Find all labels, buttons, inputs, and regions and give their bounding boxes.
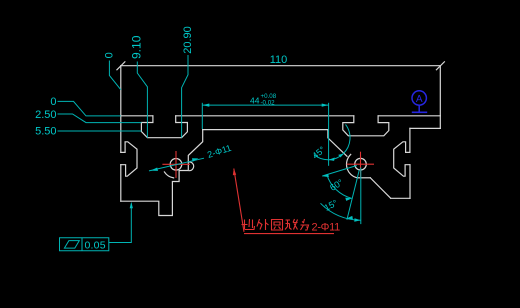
leader line 2-phi11 — [149, 158, 204, 171]
ledge left segment — [121, 115, 153, 117]
left side hook groove — [121, 142, 137, 176]
dim tick right corner — [436, 62, 444, 70]
right edge lower — [409, 165, 411, 199]
right edge mid — [409, 128, 411, 152]
svg-text:A: A — [416, 94, 423, 105]
15 arc arrow at vertical — [354, 218, 360, 222]
datum stem — [418, 105, 420, 112]
left hole crosshair vertical — [175, 151, 177, 178]
cyan dimensions — [58, 55, 361, 251]
45 arc arrow at chamfer — [338, 154, 344, 158]
44 dim arrow right — [322, 104, 329, 107]
leader arrow on 2-phi11 line lower — [151, 168, 159, 171]
fake CJK strokes: 外 — [257, 219, 269, 230]
fake CJK strokes: 圆 — [272, 220, 283, 231]
60 deg ray 1 — [322, 166, 357, 177]
datum circle — [412, 91, 426, 105]
parallelism symbol — [64, 241, 79, 249]
right T-slot — [343, 116, 389, 136]
44 dimension line — [202, 104, 328, 106]
right hole crosshair horizontal — [347, 163, 374, 165]
datum base bar — [412, 111, 427, 113]
channel ceiling — [203, 129, 328, 131]
leader arrow on 2-phi11 line upper — [192, 158, 199, 162]
fake CJK strokes: 此 — [242, 219, 309, 230]
right block bottom — [391, 197, 410, 199]
right edge upper — [439, 66, 441, 129]
44 extension line left — [201, 103, 203, 129]
svg-text:5.50: 5.50 — [35, 126, 56, 138]
channel left wall, 45 chamfer and left block steps — [121, 130, 203, 216]
right hole outer arc — [347, 154, 358, 177]
frame leader — [109, 204, 132, 243]
red underline — [244, 233, 334, 235]
red leader line — [234, 169, 244, 232]
cyan texts — [35, 26, 345, 251]
right hole circle — [355, 158, 367, 170]
datum A symbol (blue) — [412, 91, 427, 113]
left hole circle — [170, 159, 182, 171]
svg-text:2-Φ11: 2-Φ11 — [312, 222, 341, 234]
top edge / 110 dimension line — [121, 65, 441, 67]
ledge middle segment — [176, 115, 354, 117]
60 arc arrow lower — [345, 198, 352, 201]
frame leader arrow — [130, 202, 133, 209]
svg-text:44: 44 — [250, 96, 260, 106]
left hole outer arc bottom-left — [164, 172, 173, 178]
leader for 2.50 label — [58, 114, 142, 123]
15 deg dimension arc — [321, 203, 361, 220]
left T-slot — [141, 116, 187, 138]
left edge upper — [120, 66, 122, 153]
floor right of right hole — [357, 177, 370, 179]
45 deg dimension arc — [314, 124, 350, 159]
cyan arrowheads — [130, 104, 361, 222]
45 deg surface right block — [370, 178, 390, 199]
svg-text:0: 0 — [50, 96, 56, 108]
svg-text:110: 110 — [270, 54, 288, 66]
svg-text:9.10: 9.10 — [129, 35, 143, 59]
15 arc arrow at ray2 — [346, 216, 353, 219]
channel right wall and 45 chamfer — [328, 130, 347, 157]
60 deg ray 2 — [347, 170, 359, 220]
svg-text:0: 0 — [104, 52, 116, 58]
red center marks and revision note — [162, 151, 374, 234]
vertical ray below right hole — [360, 168, 362, 225]
leader for 9.10 label — [137, 62, 147, 138]
right hole crosshair vertical — [360, 152, 362, 177]
44 dim arrow left — [203, 104, 210, 107]
left hole crosshair horizontal — [162, 163, 190, 165]
leader for left 0 label — [58, 101, 121, 116]
svg-text:20.90: 20.90 — [182, 26, 194, 54]
feature control frame box — [60, 238, 109, 251]
right side hook groove — [394, 142, 410, 176]
dim tick left corner — [117, 62, 125, 70]
right step at y=128.4 — [410, 127, 440, 129]
svg-text:-0.02: -0.02 — [261, 99, 276, 106]
part outline (white) — [117, 62, 445, 216]
fake CJK strokes: 为 — [301, 219, 309, 230]
svg-text:0.05: 0.05 — [85, 239, 106, 251]
left hole outer arc right bulge — [189, 162, 193, 171]
leader for top 0 label — [109, 61, 120, 90]
red leader arrowhead — [233, 169, 236, 176]
fake CJK strokes: 改 — [285, 219, 298, 230]
leader for 20.90 label — [182, 55, 188, 138]
60 deg dimension arc — [327, 175, 352, 199]
leader for 5.50 label — [58, 130, 142, 132]
svg-text:2.50: 2.50 — [35, 109, 56, 121]
45 arc arrow at vertical — [328, 158, 334, 161]
60 arc arrow upper / ray1 arrow — [322, 174, 329, 177]
44 extension line right / 45 ref — [328, 103, 330, 166]
left edge lower — [120, 165, 122, 202]
ledge right segment — [378, 115, 440, 117]
